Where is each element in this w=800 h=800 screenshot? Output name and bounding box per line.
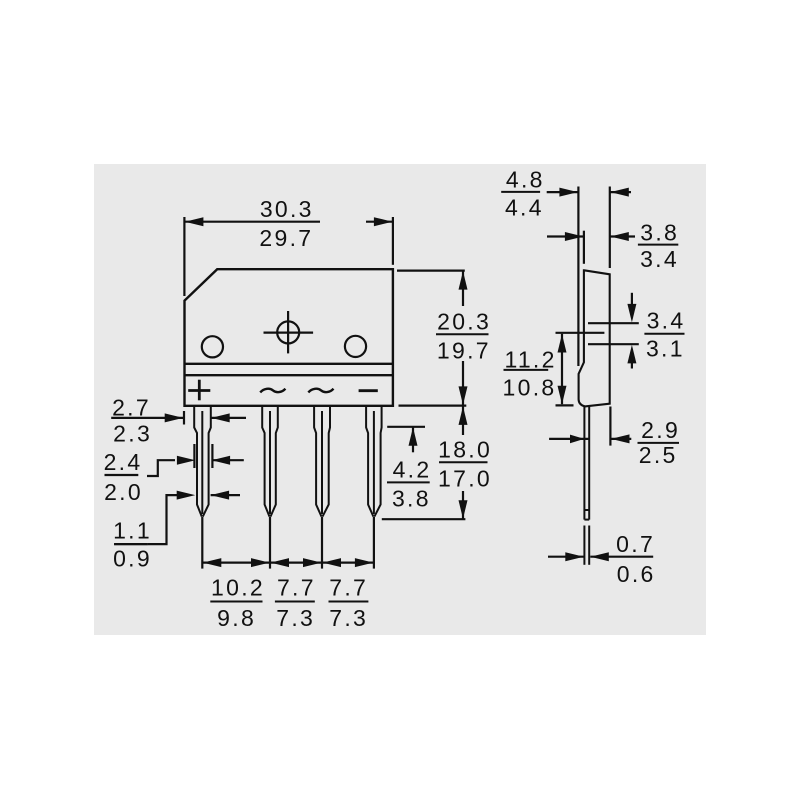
- svg-text:18.0: 18.0: [438, 437, 492, 463]
- svg-text:2.9: 2.9: [641, 417, 680, 443]
- dim 30.3/29.7 width: [184, 217, 393, 296]
- AC terminal mark 1: [260, 389, 285, 393]
- center hole crosshair: [264, 332, 314, 334]
- dim 2.7/2.3: [111, 411, 246, 425]
- side view pin upper segment: [584, 406, 589, 519]
- svg-text:10.2: 10.2: [211, 574, 265, 600]
- svg-text:2.4: 2.4: [104, 449, 143, 475]
- svg-text:29.7: 29.7: [259, 225, 313, 251]
- svg-text:4.4: 4.4: [505, 194, 544, 220]
- left mounting hole: [202, 336, 223, 357]
- svg-text:3.8: 3.8: [640, 220, 679, 246]
- svg-text:30.3: 30.3: [260, 196, 314, 222]
- svg-text:4.8: 4.8: [506, 166, 545, 192]
- dim 4.2/3.8 pin tip: [387, 427, 425, 453]
- pin 3: [314, 406, 330, 517]
- minus terminal mark: [359, 389, 378, 392]
- dim 2.9/2.5 bottom ledge: [549, 407, 631, 446]
- dim pin pitch bottom: [202, 517, 374, 569]
- dim 3.4/3.1 ledge: [627, 293, 636, 369]
- AC terminal mark 2: [308, 389, 333, 393]
- svg-text:0.7: 0.7: [616, 531, 655, 557]
- dim 20.3/19.7 height: [397, 271, 468, 405]
- side view 11.2 reference line: [556, 332, 605, 334]
- side view ledge line upper: [588, 322, 639, 324]
- svg-text:3.4: 3.4: [640, 246, 679, 272]
- front view band line upper: [185, 363, 393, 365]
- svg-text:0.9: 0.9: [113, 545, 152, 571]
- svg-text:3.1: 3.1: [646, 336, 685, 362]
- plus terminal mark: [198, 380, 201, 401]
- front view body outline: [185, 269, 393, 406]
- side view ledge line lower: [588, 343, 639, 345]
- svg-text:19.7: 19.7: [437, 338, 491, 364]
- svg-text:2.3: 2.3: [113, 421, 152, 447]
- svg-text:2.0: 2.0: [104, 479, 143, 505]
- svg-text:3.4: 3.4: [647, 307, 686, 333]
- svg-text:1.1: 1.1: [113, 517, 152, 543]
- svg-text:2.5: 2.5: [639, 442, 678, 468]
- svg-text:2.7: 2.7: [112, 394, 151, 420]
- drawing panel background: [94, 164, 706, 635]
- dim 11.2/10.8 body height: [556, 334, 574, 406]
- center hole: [277, 321, 299, 343]
- svg-text:10.8: 10.8: [503, 375, 557, 401]
- pin 4: [366, 406, 382, 517]
- dim 4.8/4.4 thickness: [547, 187, 631, 367]
- dim 2.4/2.0: [105, 444, 244, 476]
- svg-text:7.7: 7.7: [277, 574, 316, 600]
- svg-text:11.2: 11.2: [504, 347, 556, 373]
- dim 3.8/3.4 top thickness: [547, 231, 635, 264]
- right mounting hole: [345, 336, 366, 357]
- dim 1.1/0.9: [114, 491, 240, 544]
- svg-text:17.0: 17.0: [438, 466, 492, 492]
- svg-text:20.3: 20.3: [437, 308, 491, 334]
- pin 1: [194, 406, 211, 517]
- svg-text:7.7: 7.7: [329, 574, 368, 600]
- dim 0.7/0.6 pin thickness: [548, 552, 653, 561]
- svg-text:9.8: 9.8: [217, 605, 256, 631]
- side view pin lower segment: [584, 526, 589, 565]
- svg-text:7.3: 7.3: [329, 605, 368, 631]
- svg-text:4.2: 4.2: [393, 457, 432, 483]
- pin 2: [262, 406, 278, 517]
- svg-text:7.3: 7.3: [276, 605, 315, 631]
- front view band line lower: [185, 374, 393, 376]
- side view body outline: [579, 270, 610, 406]
- dim 18.0/17.0 pin length: [382, 406, 468, 520]
- svg-text:0.6: 0.6: [617, 561, 656, 587]
- svg-text:3.8: 3.8: [392, 485, 431, 511]
